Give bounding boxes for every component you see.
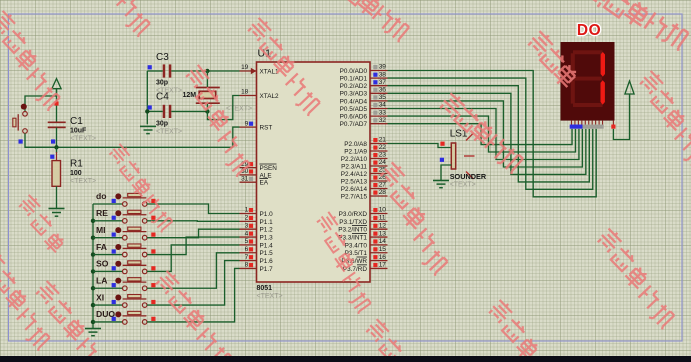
svg-text:36: 36: [379, 87, 387, 94]
svg-text:30p: 30p: [156, 80, 168, 87]
pin 8 P1.7: [240, 267, 257, 269]
pin 5 P1.4: [240, 244, 257, 246]
pin 29 PSEN: [240, 167, 257, 169]
pin 4 P1.3: [240, 236, 257, 238]
wire P0.1 to display segment pin 2: [388, 78, 593, 189]
power arrow VCC (reset circuit): [52, 79, 61, 96]
svg-text:XTAL2: XTAL2: [260, 93, 280, 100]
junction dot crystal top: [205, 69, 209, 73]
ground symbol below sounder: [433, 180, 449, 182]
svg-text:37: 37: [379, 79, 387, 86]
logic state square (low) left of button do: [112, 199, 116, 203]
svg-text:<TEXT>: <TEXT>: [226, 105, 252, 112]
svg-text:9: 9: [245, 120, 249, 127]
svg-text:P1.1: P1.1: [260, 219, 274, 226]
wire bus to button FA: [93, 254, 122, 256]
wire button LA to pin P1.5: [147, 253, 240, 288]
pin 19 XTAL1: [240, 70, 257, 72]
actuator dot of button DUO: [115, 311, 121, 317]
wire R1 bottom to ground: [56, 186, 58, 208]
unlit segment f: [571, 53, 575, 76]
wire button bottom to RST bus: [25, 133, 57, 147]
logic state square (low) left of button DUO: [112, 317, 116, 321]
logic state square (high) right of button DUO: [151, 317, 155, 321]
logic state square (low) left of button LA: [112, 283, 116, 287]
logic state square (low) left of button SO: [112, 266, 116, 270]
svg-text:P0.4/AD4: P0.4/AD4: [340, 98, 368, 105]
display pin state squares (blue/gray bar): [570, 125, 583, 129]
resistor R1: [52, 161, 61, 187]
pin 24 P2.3/A11: [370, 165, 388, 167]
pin 1 P1.0: [240, 213, 257, 215]
push button MI: [123, 235, 128, 240]
pin 33 P0.6/AD6: [370, 115, 388, 117]
wire P2.0 pin 21 to sounder LS1: [388, 144, 452, 148]
junction dot bus row XI: [91, 303, 95, 307]
RST net bus wire: [25, 146, 233, 148]
svg-text:P1.7: P1.7: [260, 266, 274, 273]
wire button XI to pin P1.6: [147, 261, 240, 306]
unlit segment e: [571, 81, 575, 104]
svg-text:P0.1/AD1: P0.1/AD1: [340, 76, 368, 83]
actuator dot of button FA: [115, 244, 121, 250]
actuator dot of button RE: [115, 210, 121, 216]
pin 30 ALE: [240, 174, 257, 176]
svg-text:38: 38: [379, 71, 387, 78]
svg-text:19: 19: [241, 64, 249, 71]
actuator dot of button do: [115, 193, 121, 199]
svg-text:SOUNDER: SOUNDER: [450, 172, 487, 181]
pin 2 P1.1: [240, 220, 257, 222]
svg-text:30p: 30p: [156, 121, 168, 128]
svg-text:SO: SO: [96, 259, 109, 269]
actuator dot of button SO: [115, 261, 121, 267]
svg-text:C1: C1: [70, 116, 83, 127]
pin 16 P3.6/WR: [370, 260, 388, 262]
window bottom bar: [0, 356, 691, 362]
logic state square (high) at sounder top terminal: [440, 142, 444, 146]
logic state square (high) right of button RE: [151, 216, 155, 220]
pin 7 P1.6: [240, 260, 257, 262]
pin 31 EA: [240, 181, 257, 183]
display common pin state square (high): [611, 125, 615, 129]
svg-text:<TEXT>: <TEXT>: [450, 182, 476, 189]
pin 21 P2.0/A8: [370, 143, 388, 145]
pin 34 P0.5/AD5: [370, 108, 388, 110]
logic state square (high) right of button do: [151, 199, 155, 203]
unlit segment a: [573, 50, 603, 54]
svg-text:DO: DO: [577, 22, 601, 39]
pin 23 P2.2/A10: [370, 158, 388, 160]
unlit segment d: [573, 103, 603, 107]
logic state square (low) left of button XI: [112, 300, 116, 304]
svg-text:P2.7/A15: P2.7/A15: [341, 193, 368, 200]
pin 3 P1.2: [240, 228, 257, 230]
pin 10 P3.0/RXD: [370, 213, 388, 215]
pin 39 P0.0/AD0: [370, 70, 388, 72]
pin 32 P0.7/AD7: [370, 123, 388, 125]
capacitor C3: [163, 64, 166, 77]
pin 18 XTAL2: [240, 95, 257, 97]
svg-text:2: 2: [245, 215, 249, 222]
wire C3/C4 left vertical to ground: [146, 71, 148, 124]
push button SO: [123, 269, 128, 274]
svg-text:23: 23: [379, 152, 387, 159]
wire P0.0 to display segment pin 1: [388, 71, 597, 197]
lit segment c (digit 1): [601, 80, 605, 104]
pin 26 P2.5/A13: [370, 180, 388, 182]
ground symbol below C3/C4: [140, 125, 156, 127]
svg-text:P2.2/A10: P2.2/A10: [341, 156, 368, 163]
crystal X1 12MHz: [196, 87, 220, 89]
wire sounder bottom to ground: [441, 165, 451, 181]
svg-text:P3.2/INT0: P3.2/INT0: [338, 227, 367, 234]
svg-text:8: 8: [245, 262, 249, 269]
wire C3 left: [147, 70, 162, 72]
svg-text:RE: RE: [96, 208, 108, 218]
wire bus to button XI: [93, 304, 122, 306]
junction dot C1/R1/bus: [54, 145, 58, 149]
sounder LS1 body: [451, 143, 455, 169]
svg-text:13: 13: [379, 230, 387, 237]
svg-text:100: 100: [70, 170, 82, 177]
svg-text:8051: 8051: [257, 285, 273, 292]
svg-text:16: 16: [379, 254, 387, 261]
logic state square (high) right of button XI: [151, 300, 155, 304]
svg-text:do: do: [96, 191, 107, 201]
wire P0.4 to display segment pin 5: [388, 101, 583, 167]
svg-text:6: 6: [245, 246, 249, 253]
actuator dot of button MI: [115, 227, 121, 233]
svg-text:17: 17: [379, 262, 387, 269]
wire bus to button do: [93, 203, 122, 205]
wire button RE to pin P1.1: [147, 220, 240, 222]
logic state square (low) under C1: [51, 139, 55, 143]
op-amp-style chip body U1 8051: [257, 62, 371, 282]
svg-text:P1.5: P1.5: [260, 250, 274, 257]
wire P0.6 to display segment pin 7: [388, 116, 576, 152]
pin 28 P2.7/A15: [370, 195, 388, 197]
push button LA: [123, 286, 128, 291]
logic state square (low) left of button MI: [112, 233, 116, 237]
wire RST bus riser to pin 9: [233, 127, 240, 147]
svg-text:<TEXT>: <TEXT>: [257, 293, 283, 300]
svg-text:<TEXT>: <TEXT>: [156, 129, 182, 136]
svg-text:P1.0: P1.0: [260, 211, 274, 218]
pin 22 P2.1/A9: [370, 150, 388, 152]
svg-text:P1.3: P1.3: [260, 234, 274, 241]
svg-text:P2.4/A12: P2.4/A12: [341, 171, 368, 178]
power arrow VCC at display: [625, 81, 634, 94]
push button (reset): [23, 112, 28, 117]
button column ground bus wire: [92, 204, 94, 329]
logic state square (high) right of button LA: [151, 283, 155, 287]
junction dot at reset button top: [21, 104, 27, 110]
pin 15 P3.5/T1: [370, 252, 388, 254]
svg-text:39: 39: [379, 64, 387, 71]
svg-text:RST: RST: [260, 125, 273, 132]
logic state square (low) on RST bus: [50, 155, 54, 159]
pin 11 P3.1/TXD: [370, 220, 388, 222]
wire C1 bottom to RST bus: [56, 127, 58, 147]
junction dot bus row MI: [91, 236, 95, 240]
svg-text:P3.1/TXD: P3.1/TXD: [339, 219, 367, 226]
svg-text:<TEXT>: <TEXT>: [70, 178, 96, 185]
svg-text:28: 28: [379, 189, 387, 196]
pin 9 RST: [240, 126, 257, 128]
svg-text:P0.6/AD6: P0.6/AD6: [340, 114, 368, 121]
wire P0.7 to display segment pin 8: [388, 124, 573, 145]
push button XI: [123, 303, 128, 308]
wire VCC arrow to C1 top: [56, 89, 58, 123]
wire button DUO to pin P1.7: [147, 268, 240, 322]
svg-text:1: 1: [245, 207, 249, 214]
wire C3 right to XTAL1 pin 19: [171, 70, 239, 72]
svg-text:35: 35: [379, 94, 387, 101]
svg-text:P0.2/AD2: P0.2/AD2: [340, 83, 368, 90]
display pin stubs: [571, 121, 573, 125]
svg-text:R1: R1: [70, 159, 83, 170]
capacitor C1: [48, 121, 66, 123]
wire VCC branch to reset button top: [25, 96, 57, 111]
wire button MI to pin P1.2: [147, 229, 240, 238]
svg-text:MI: MI: [96, 225, 106, 235]
wire P0.3 to display segment pin 4: [388, 93, 586, 174]
ground symbol below button bus: [85, 328, 101, 330]
svg-text:5: 5: [245, 238, 249, 245]
svg-text:P2.1/A9: P2.1/A9: [344, 148, 367, 155]
wire button do to pin P1.0: [147, 204, 240, 214]
svg-text:P1.2: P1.2: [260, 227, 274, 234]
junction dot bus row RE: [91, 219, 95, 223]
junction dot bus row FA: [91, 252, 95, 256]
svg-text:24: 24: [379, 159, 387, 166]
pin 6 P1.5: [240, 252, 257, 254]
wire bus to button MI: [93, 237, 122, 239]
pin 25 P2.4/A12: [370, 173, 388, 175]
svg-text:18: 18: [241, 89, 249, 96]
push button do: [123, 202, 128, 207]
7-segment display body: [561, 42, 615, 121]
pin 12 P3.2/INT0: [370, 228, 388, 230]
pin 14 P3.4/T0: [370, 244, 388, 246]
logic state square (high) right of button SO: [151, 266, 155, 270]
junction dot C4 left: [145, 109, 149, 113]
wire bus to button RE: [93, 220, 122, 222]
logic state square (low) left of button FA: [112, 249, 116, 253]
svg-text:P2.3/A11: P2.3/A11: [341, 163, 367, 170]
svg-text:32: 32: [379, 117, 387, 124]
wire bus to button LA: [93, 287, 122, 289]
unlit segment g: [574, 77, 602, 81]
sound wave lines of LS1: [466, 133, 474, 141]
logic state square (high) right of button MI: [151, 233, 155, 237]
pin 36 P0.3/AD3: [370, 92, 388, 94]
wire P0.5 to display segment pin 6: [388, 109, 579, 160]
wire bus to button DUO: [93, 321, 122, 323]
svg-text:P3.0/RXD: P3.0/RXD: [339, 211, 368, 218]
svg-text:22: 22: [379, 144, 387, 151]
svg-text:10uF: 10uF: [70, 128, 87, 135]
junction dot crystal bottom: [205, 109, 209, 113]
push button FA: [123, 252, 128, 257]
svg-text:33: 33: [379, 109, 387, 116]
svg-text:P1.4: P1.4: [260, 242, 274, 249]
svg-text:P0.5/AD5: P0.5/AD5: [340, 106, 368, 113]
actuator dot of button LA: [115, 278, 121, 284]
wire button FA to pin P1.3: [147, 237, 240, 254]
logic state square on C3 left wire: [148, 65, 152, 69]
wire display power: arrow to common pin: [613, 94, 629, 140]
capacitor C4: [163, 105, 166, 118]
svg-text:4: 4: [245, 230, 249, 237]
svg-text:P2.6/A14: P2.6/A14: [341, 186, 368, 193]
svg-text:<TEXT>: <TEXT>: [70, 136, 96, 143]
svg-text:15: 15: [379, 246, 387, 253]
svg-text:34: 34: [379, 102, 387, 109]
push button RE: [123, 219, 128, 224]
wire crystal bottom stub: [206, 103, 208, 111]
pin 17 P3.7/RD: [370, 267, 388, 269]
wire RST bus to R1 top: [56, 147, 58, 153]
svg-text:XTAL1: XTAL1: [260, 68, 280, 75]
svg-text:P2.0/A8: P2.0/A8: [344, 141, 367, 148]
svg-text:PSEN: PSEN: [260, 165, 278, 172]
svg-text:P1.6: P1.6: [260, 258, 274, 265]
wire bus to button SO: [93, 270, 122, 272]
logic state square (low) near reset button bottom: [19, 139, 23, 143]
svg-text:LA: LA: [96, 275, 107, 285]
svg-text:FA: FA: [96, 242, 107, 252]
svg-text:P0.7/AD7: P0.7/AD7: [340, 121, 368, 128]
wire crystal junction to XTAL2 pin 18: [207, 96, 239, 120]
push button DUO: [123, 320, 128, 325]
svg-text:XI: XI: [96, 292, 104, 302]
svg-text:27: 27: [379, 182, 387, 189]
svg-text:11: 11: [379, 215, 386, 222]
svg-text:EA: EA: [260, 180, 269, 187]
lit segment b (digit 1): [601, 52, 605, 77]
wire C4 left: [147, 110, 162, 112]
svg-text:3: 3: [245, 222, 249, 229]
svg-text:7: 7: [245, 254, 249, 261]
svg-text:C4: C4: [156, 92, 169, 103]
svg-text:14: 14: [379, 238, 387, 245]
svg-text:P0.3/AD3: P0.3/AD3: [340, 91, 368, 98]
pin 13 P3.3/INT1: [370, 236, 388, 238]
logic state square (low) left of button RE: [112, 216, 116, 220]
svg-text:12: 12: [379, 222, 387, 229]
junction dot bus row DUO: [91, 320, 95, 324]
wire crystal top stub: [206, 71, 208, 88]
pin 35 P0.4/AD4: [370, 100, 388, 102]
actuator dot of button XI: [115, 295, 121, 301]
wire button SO to pin P1.4: [147, 245, 240, 272]
pin 37 P0.2/AD2: [370, 85, 388, 87]
logic state square (high) on VCC stem: [54, 101, 58, 105]
logic state square (low) at sounder bottom terminal: [440, 158, 444, 162]
svg-text:10: 10: [379, 207, 387, 214]
pin 38 P0.1/AD1: [370, 77, 388, 79]
ground symbol under R1: [49, 208, 65, 210]
svg-text:12M: 12M: [183, 92, 197, 99]
wire P0.2 to display segment pin 3: [388, 86, 590, 182]
junction dot bus row LA: [91, 286, 95, 290]
logic state square on C4 left wire: [148, 105, 152, 109]
svg-text:P2.5/A13: P2.5/A13: [341, 178, 368, 185]
svg-text:P0.0/AD0: P0.0/AD0: [340, 68, 368, 75]
svg-text:P3.4/T0: P3.4/T0: [345, 242, 368, 249]
svg-text:C3: C3: [156, 52, 169, 63]
svg-text:21: 21: [379, 137, 387, 144]
svg-text:31: 31: [241, 175, 249, 182]
junction dot bus row SO: [91, 269, 95, 273]
pin 27 P2.6/A14: [370, 188, 388, 190]
logic state square (high) right of button FA: [151, 249, 155, 253]
wire C4 right to crystal bottom junction: [171, 110, 207, 112]
